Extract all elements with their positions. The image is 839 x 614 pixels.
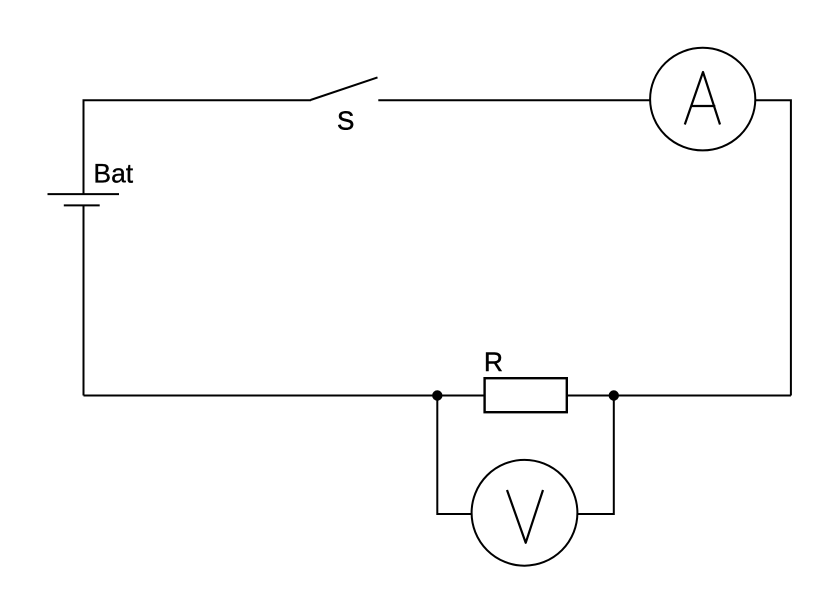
svg-text:Bat: Bat xyxy=(93,159,133,189)
svg-text:S: S xyxy=(337,106,354,136)
svg-text:R: R xyxy=(484,347,503,377)
